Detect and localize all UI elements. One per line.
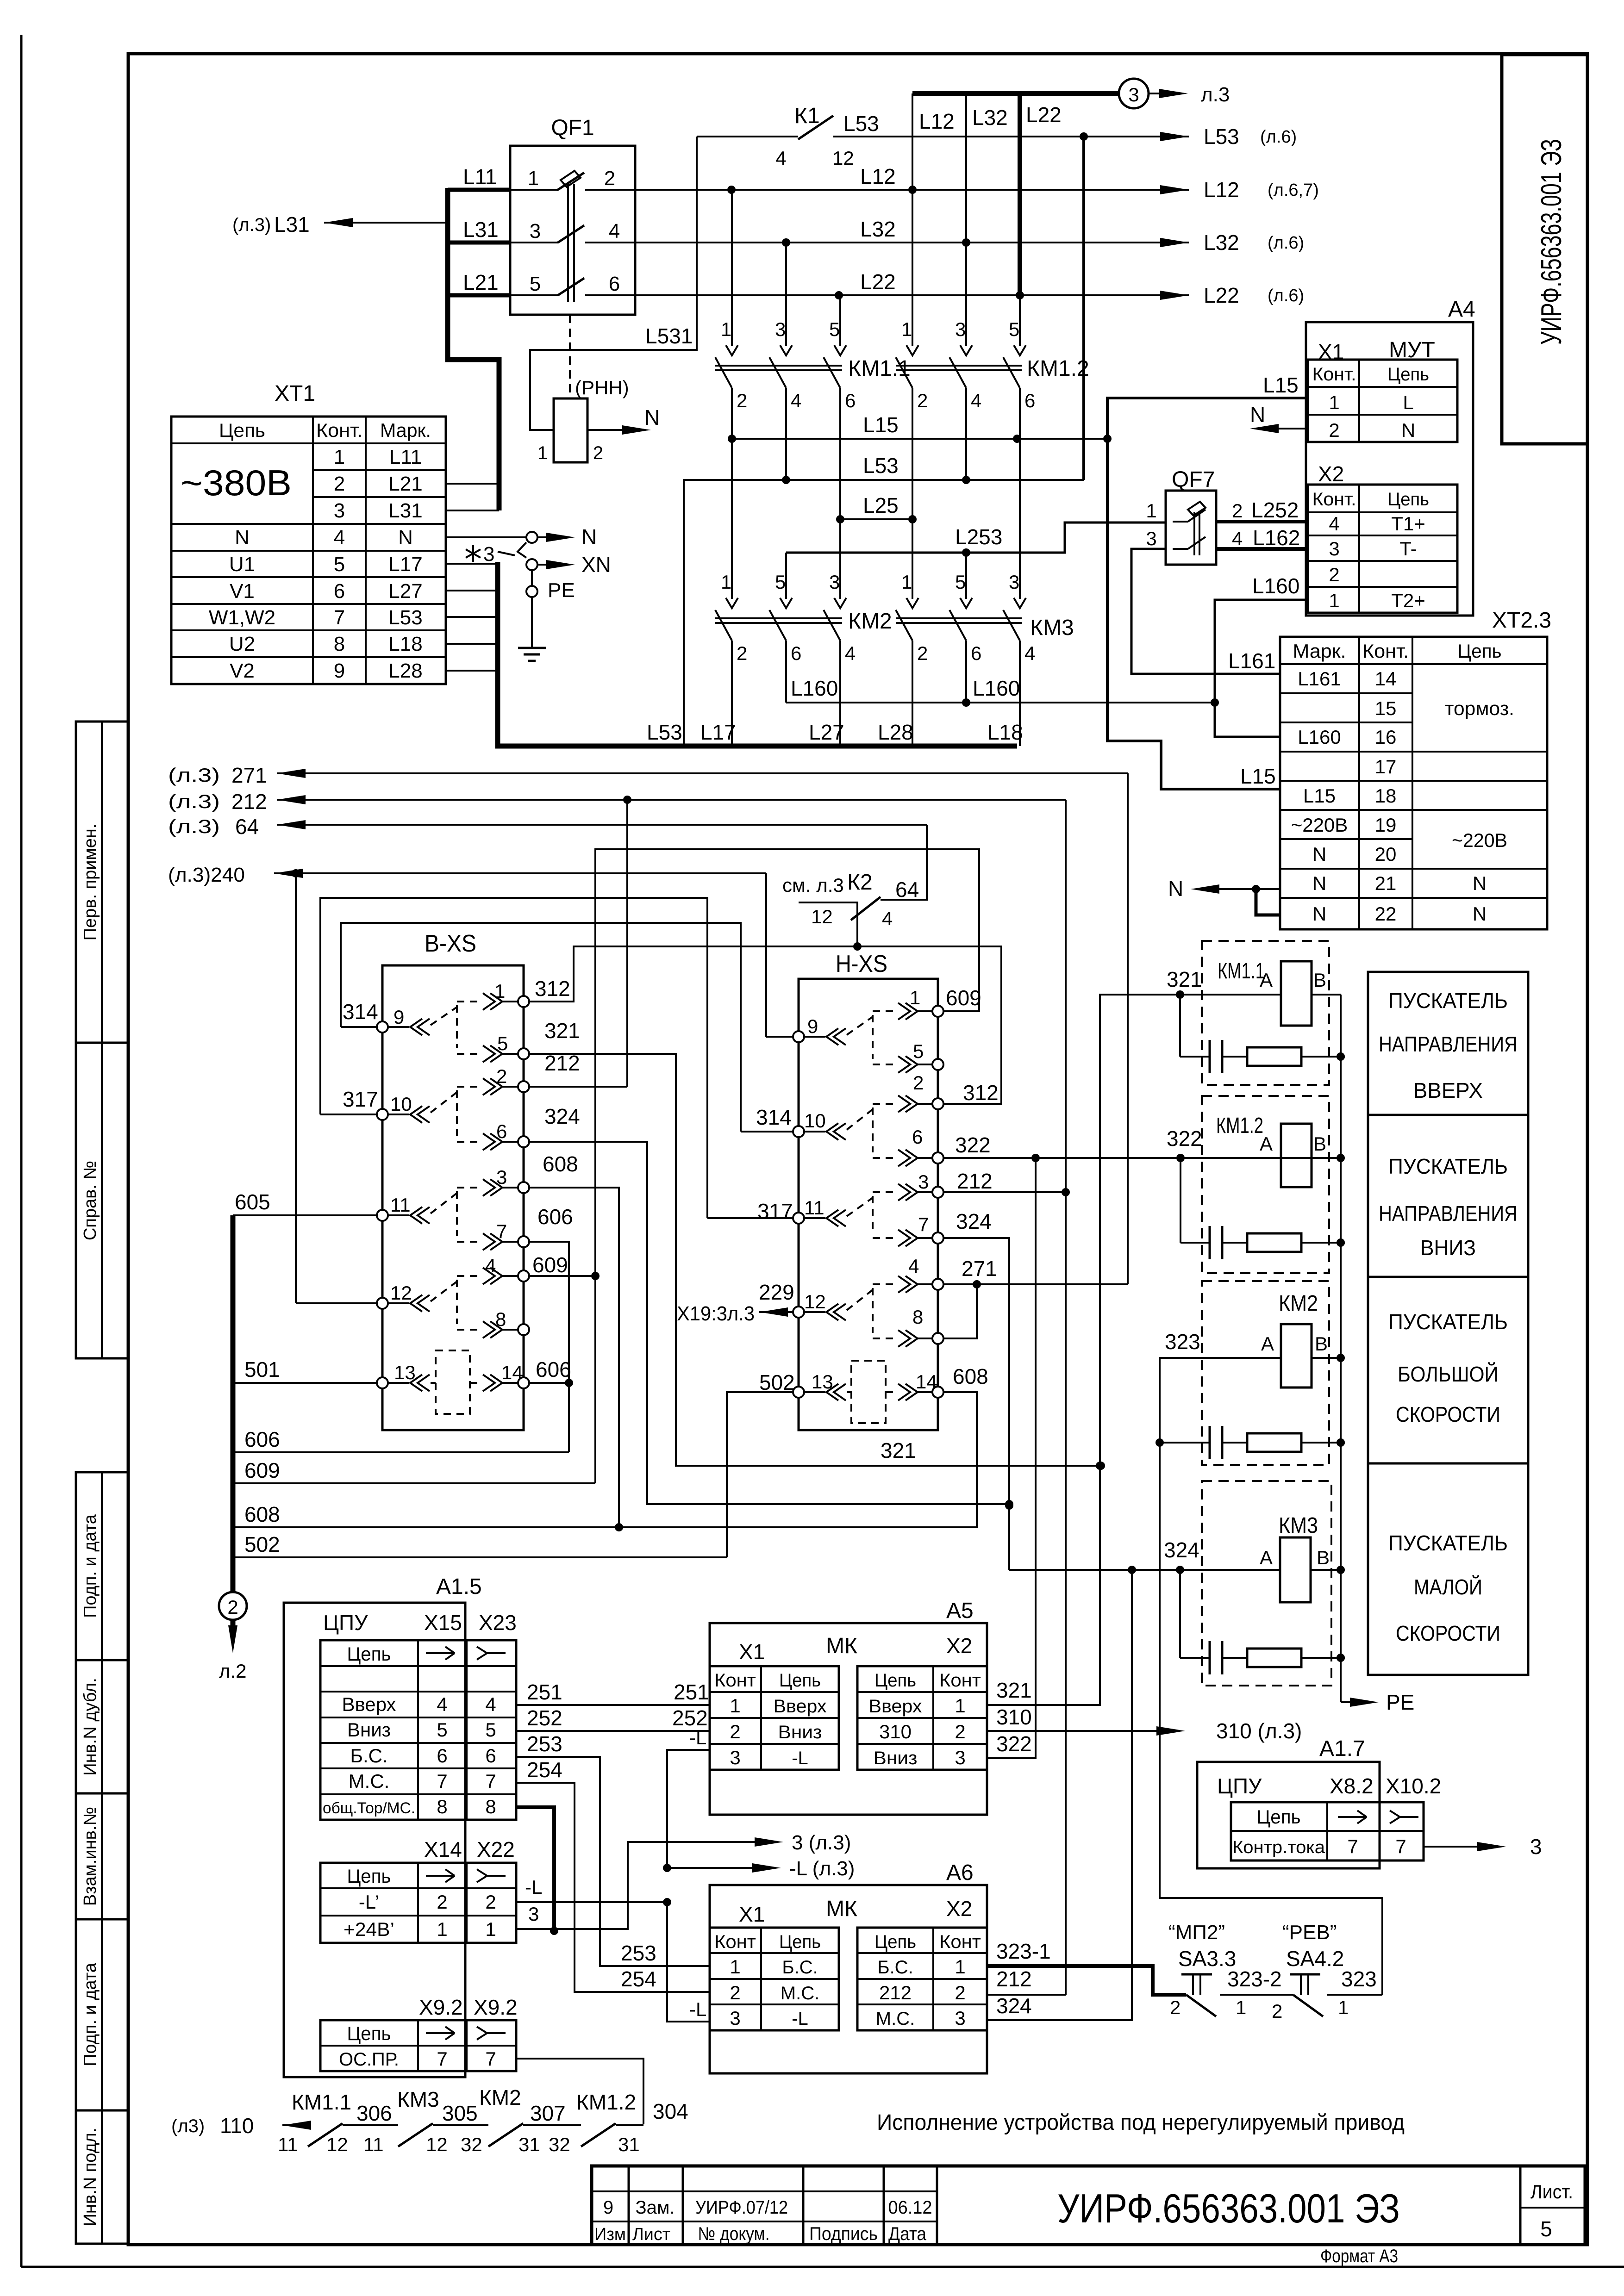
svg-text:ПУСКАТЕЛЬ: ПУСКАТЕЛЬ	[1388, 1310, 1508, 1334]
riser L17	[731, 641, 733, 746]
wire to QF7 pin3 / L161	[1131, 549, 1280, 674]
wire 609 stub pin4	[529, 1275, 595, 1277]
svg-text:X22: X22	[477, 1837, 515, 1861]
KM3 snubber	[1179, 1570, 1181, 1658]
svg-text:L15: L15	[1303, 785, 1336, 807]
svg-text:12: 12	[390, 1282, 412, 1304]
svg-text:606: 606	[536, 1357, 571, 1381]
svg-text:МАЛОЙ: МАЛОЙ	[1414, 1575, 1482, 1599]
svg-text:X9.2: X9.2	[419, 1995, 463, 2019]
svg-text:1: 1	[910, 987, 920, 1008]
svg-text:ВНИЗ: ВНИЗ	[1420, 1236, 1476, 1260]
svg-text:H-XS: H-XS	[836, 951, 887, 977]
svg-text:М.С.: М.С.	[781, 1983, 819, 2004]
wire 254	[516, 1783, 710, 1992]
svg-text:Изм: Изм	[594, 2225, 626, 2244]
B-XS pin 12	[377, 1298, 388, 1309]
svg-text:L27: L27	[809, 720, 844, 744]
svg-text:6: 6	[437, 1745, 447, 1767]
svg-text:Цепь: Цепь	[347, 1643, 391, 1665]
svg-text:11: 11	[804, 1197, 824, 1219]
svg-text:(л.3): (л.3)	[168, 764, 220, 786]
svg-text:L17: L17	[388, 553, 422, 576]
svg-text:L28: L28	[388, 660, 422, 682]
svg-text:64: 64	[895, 877, 919, 902]
svg-text:12: 12	[832, 147, 854, 169]
device A4 МУТ	[1306, 322, 1473, 616]
svg-text:A: A	[1260, 1133, 1273, 1155]
svg-text:L31: L31	[463, 218, 499, 242]
svg-text:(л.6): (л.6)	[1268, 286, 1304, 305]
wire 304 from X9.2	[516, 2059, 643, 2124]
wire 323	[1160, 1358, 1382, 1995]
svg-text:XT2.3: XT2.3	[1492, 608, 1551, 633]
H-XS pin 2	[932, 1098, 943, 1109]
H-XS pin 6	[932, 1152, 943, 1164]
KM1.2 snubber	[1180, 1158, 1181, 1243]
svg-text:609: 609	[244, 1458, 280, 1482]
wire 323-2	[1220, 1994, 1293, 1996]
contactor КМ1.2 linkage	[896, 365, 1022, 367]
svg-text:U1: U1	[229, 553, 255, 576]
svg-text:Взам.инв.№: Взам.инв.№	[81, 1807, 100, 1906]
H-XS pin 3	[932, 1187, 943, 1198]
svg-text:11: 11	[278, 2134, 298, 2155]
svg-text:A6: A6	[946, 1860, 974, 1885]
wire 317 stub	[320, 1114, 377, 1115]
wire -L net	[516, 1901, 667, 1903]
svg-text:609: 609	[532, 1253, 568, 1277]
wire L15 to XT2.3	[1107, 439, 1280, 789]
svg-text:32: 32	[549, 2134, 570, 2155]
label box ПУСКАТЕЛЬ НАПРАВЛЕНИЯ ВНИЗ	[1368, 1115, 1528, 1277]
svg-text:2: 2	[1232, 500, 1243, 522]
svg-text:4: 4	[882, 908, 893, 929]
wire 608 from pin3	[529, 1188, 619, 1527]
svg-text:N: N	[1250, 403, 1265, 427]
svg-text:3: 3	[955, 2007, 965, 2029]
left margin box Инв.N дубл.	[76, 1660, 128, 1793]
svg-text:251: 251	[674, 1680, 709, 1704]
aux contact KM3 11-12	[398, 2123, 433, 2147]
svg-text:9: 9	[334, 660, 345, 682]
svg-text:305: 305	[442, 2101, 478, 2125]
svg-text:4: 4	[845, 642, 856, 664]
wire 608 from h14	[943, 1392, 977, 1528]
svg-text:31: 31	[618, 2134, 640, 2155]
svg-text:5: 5	[913, 1040, 924, 1062]
svg-text:321: 321	[1167, 967, 1202, 991]
svg-text:310: 310	[996, 1705, 1032, 1729]
svg-text:L31: L31	[274, 212, 310, 236]
svg-text:-L: -L	[792, 2009, 808, 2029]
A1.5 table X14/X22	[320, 1863, 516, 1943]
svg-text:12: 12	[804, 1291, 826, 1313]
svg-text:310 (л.3): 310 (л.3)	[1216, 1719, 1302, 1743]
svg-text:321: 321	[996, 1678, 1032, 1702]
svg-text:Конт: Конт	[714, 1932, 756, 1952]
svg-text:(л.3): (л.3)	[232, 215, 271, 235]
svg-text:3: 3	[918, 1171, 929, 1193]
svg-text:6: 6	[609, 273, 620, 295]
svg-text:N: N	[1401, 419, 1415, 441]
XT1 neutral N branch circles	[446, 536, 526, 538]
svg-text:A5: A5	[946, 1599, 974, 1623]
svg-text:322: 322	[955, 1133, 991, 1157]
label box ПУСКАТЕЛЬ БОЛЬШОЙ СКОРОСТИ	[1368, 1277, 1528, 1463]
harness bundle to sheet 2	[231, 1215, 236, 1592]
wire 501	[233, 1382, 377, 1384]
svg-text:2: 2	[913, 1072, 924, 1094]
svg-text:ПУСКАТЕЛЬ: ПУСКАТЕЛЬ	[1388, 1531, 1508, 1555]
svg-text:L53: L53	[647, 720, 682, 744]
svg-text:2: 2	[955, 1721, 965, 1742]
svg-text:КМ1.2: КМ1.2	[576, 2090, 636, 2114]
A1.5 table X15/X23	[320, 1640, 516, 1820]
svg-text:УИРФ.07/12: УИРФ.07/12	[695, 2197, 788, 2218]
svg-text:Цепь: Цепь	[347, 1865, 391, 1887]
svg-text:л.2: л.2	[219, 1660, 247, 1682]
A5 X1 table	[710, 1666, 839, 1770]
wire L32 row	[635, 242, 1189, 243]
svg-text:Подп. и дата: Подп. и дата	[81, 1514, 100, 1618]
svg-text:1: 1	[955, 1695, 965, 1717]
svg-text:Вверх: Вверх	[774, 1696, 827, 1717]
svg-text:4: 4	[437, 1693, 447, 1715]
svg-text:X15: X15	[424, 1611, 462, 1635]
aux contact KM1.2 32-31	[581, 2123, 616, 2147]
svg-text:1: 1	[1329, 590, 1339, 611]
H-XS pin 12	[793, 1307, 804, 1318]
svg-text:X9.2: X9.2	[474, 1995, 518, 2019]
svg-text:X19:3л.3: X19:3л.3	[677, 1302, 755, 1325]
svg-text:XN: XN	[581, 553, 611, 577]
svg-text:A1.7: A1.7	[1319, 1736, 1365, 1761]
svg-text:L31: L31	[388, 499, 422, 522]
svg-text:(РНН): (РНН)	[575, 377, 629, 398]
svg-text:N: N	[644, 405, 660, 429]
left margin box Подп. и дата	[76, 1919, 128, 2110]
svg-text:L15: L15	[1240, 764, 1276, 788]
B-XS pin 5	[518, 1048, 529, 1059]
svg-text:3: 3	[1146, 528, 1156, 549]
svg-text:“МП2”: “МП2”	[1168, 1921, 1225, 1944]
H-XS pin 8	[932, 1333, 943, 1344]
svg-text:9: 9	[603, 2197, 613, 2218]
asterisk 3 note	[466, 545, 481, 562]
wire L253	[786, 523, 1166, 553]
wire 321	[1100, 995, 1281, 1706]
svg-text:Вниз: Вниз	[778, 1722, 822, 1742]
svg-text:л.3: л.3	[1201, 83, 1230, 106]
svg-text:12: 12	[811, 906, 833, 927]
svg-text:N: N	[1168, 877, 1183, 901]
B-XS pin 11	[377, 1210, 388, 1221]
H-XS wiper 10->2/6	[826, 1123, 846, 1140]
svg-text:V1: V1	[230, 580, 255, 603]
svg-text:1: 1	[1236, 1997, 1246, 2018]
riser L32	[965, 93, 967, 243]
svg-text:L22: L22	[860, 270, 896, 294]
svg-text:314: 314	[343, 1000, 378, 1024]
svg-text:5: 5	[1009, 318, 1019, 340]
svg-text:X10.2: X10.2	[1386, 1774, 1441, 1798]
svg-text:T2+: T2+	[1391, 590, 1425, 611]
H-XS pin 7	[932, 1232, 943, 1244]
svg-text:608: 608	[543, 1152, 578, 1176]
svg-text:5: 5	[829, 318, 840, 340]
svg-text:323: 323	[1165, 1330, 1200, 1354]
svg-text:3: 3	[1329, 538, 1339, 560]
svg-text:B: B	[1313, 1133, 1326, 1155]
svg-text:Контр.тока: Контр.тока	[1232, 1838, 1325, 1857]
svg-text:253: 253	[621, 1941, 656, 1965]
svg-text:Б.С.: Б.С.	[877, 1957, 913, 1978]
svg-text:2: 2	[737, 390, 747, 411]
arrow 310 (л.3)	[987, 1730, 1156, 1732]
svg-text:М.С.: М.С.	[349, 1770, 390, 1792]
wire 324 from pin6	[529, 1142, 1009, 1504]
svg-text:КМ2: КМ2	[1279, 1291, 1318, 1316]
svg-text:4: 4	[1232, 528, 1243, 549]
svg-text:606: 606	[244, 1427, 280, 1451]
wire 240 drop to H-XS pin9	[765, 873, 767, 1037]
svg-text:L27: L27	[388, 580, 422, 603]
svg-text:12: 12	[326, 2134, 348, 2155]
wire L22 row	[635, 294, 1189, 296]
svg-text:605: 605	[235, 1190, 270, 1214]
svg-text:2: 2	[737, 642, 747, 664]
undervoltage release (РНН)	[554, 398, 587, 462]
svg-text:251: 251	[527, 1680, 562, 1704]
svg-text:L25: L25	[863, 493, 899, 517]
left margin box Инв.N подл.	[76, 2110, 128, 2244]
svg-text:N: N	[1473, 872, 1487, 894]
svg-text:Вниз: Вниз	[874, 1748, 918, 1768]
KM2 snubber	[1160, 1442, 1210, 1444]
svg-text:L28: L28	[878, 720, 913, 744]
wire L31	[448, 241, 510, 245]
wire 251	[516, 1704, 710, 1706]
svg-text:КМ2: КМ2	[848, 609, 892, 634]
svg-text:A: A	[1260, 969, 1273, 991]
svg-text:Цепь: Цепь	[1387, 489, 1429, 510]
svg-text:322: 322	[1167, 1126, 1202, 1151]
wire 321 from pin5	[529, 1054, 1101, 1466]
svg-text:B: B	[1317, 1547, 1330, 1568]
svg-text:L32: L32	[972, 106, 1008, 130]
H-XS pin 10	[793, 1126, 804, 1137]
svg-text:Вверх: Вверх	[342, 1693, 396, 1715]
svg-text:10: 10	[390, 1093, 412, 1115]
svg-text:8: 8	[437, 1796, 447, 1817]
wire 502 channel	[234, 1556, 727, 1558]
svg-text:A: A	[1260, 1547, 1273, 1568]
svg-text:ПУСКАТЕЛЬ: ПУСКАТЕЛЬ	[1388, 1154, 1508, 1178]
svg-text:(л.6): (л.6)	[1260, 127, 1297, 147]
svg-text:ОС.ПР.: ОС.ПР.	[339, 2049, 399, 2070]
svg-text:321: 321	[881, 1438, 916, 1462]
wire 3 net	[516, 1842, 755, 1929]
wire L53 top row	[833, 136, 1189, 137]
svg-text:14: 14	[916, 1371, 937, 1393]
wire 314 stub h10	[741, 1131, 793, 1132]
svg-text:212: 212	[996, 1967, 1032, 1991]
svg-text:Марк.: Марк.	[380, 419, 431, 441]
-L down to A6	[667, 1902, 710, 2022]
page outer border	[20, 35, 23, 2267]
svg-text:314: 314	[756, 1105, 792, 1129]
A1.5 table X9.2	[320, 2020, 516, 2071]
wire 253	[516, 1757, 710, 1966]
riser L27	[839, 641, 841, 746]
svg-text:5: 5	[334, 553, 345, 576]
svg-text:502: 502	[244, 1532, 280, 1556]
svg-text:608: 608	[244, 1502, 280, 1526]
label box ПУСКАТЕЛЬ МАЛОЙ СКОРОСТИ	[1368, 1463, 1528, 1675]
svg-text:КМ3: КМ3	[1030, 616, 1074, 640]
svg-text:L53: L53	[1204, 124, 1239, 149]
wire 317 stub h11	[707, 1217, 793, 1219]
svg-text:9: 9	[394, 1006, 404, 1028]
left margin box Перв. примен.	[76, 722, 128, 1043]
svg-text:2: 2	[1329, 564, 1339, 585]
svg-text:L160: L160	[1298, 726, 1341, 748]
svg-text:11: 11	[390, 1194, 411, 1216]
contactor КМ1.2 pole 3-4	[960, 345, 972, 355]
contactor KM1.1 contacts	[731, 190, 733, 346]
svg-text:V2: V2	[230, 660, 255, 682]
svg-text:5: 5	[775, 571, 786, 593]
N arrow from A4	[1278, 428, 1308, 429]
svg-text:1: 1	[334, 446, 345, 468]
wire 317 cross link	[320, 898, 707, 1218]
wire 212 from A6	[987, 1994, 1066, 1996]
wire -L to A5	[667, 1750, 710, 1868]
wire 608 channel	[234, 1526, 977, 1528]
svg-text:2: 2	[1272, 2000, 1282, 2022]
svg-text:64: 64	[235, 815, 259, 839]
svg-text:УИРФ.656363.001 ЭЗ: УИРФ.656363.001 ЭЗ	[1057, 2185, 1400, 2231]
svg-text:609: 609	[946, 986, 981, 1010]
svg-text:4: 4	[908, 1255, 919, 1277]
svg-text:Формат А3: Формат А3	[1320, 2246, 1398, 2266]
wire L531	[530, 137, 697, 430]
B-XS wiper 12->4/8	[410, 1295, 430, 1312]
svg-text:(л.3): (л.3)	[168, 815, 220, 837]
svg-text:ВВЕРХ: ВВЕРХ	[1413, 1078, 1483, 1102]
svg-text:32: 32	[461, 2134, 482, 2155]
svg-text:19: 19	[1375, 814, 1397, 836]
circuit breaker QF1	[510, 146, 635, 315]
svg-text:НАПРАВЛЕНИЯ: НАПРАВЛЕНИЯ	[1379, 1032, 1518, 1056]
svg-text:14: 14	[501, 1362, 523, 1383]
svg-text:-L: -L	[792, 1748, 808, 1768]
svg-text:L18: L18	[987, 720, 1023, 744]
svg-text:тормоз.: тормоз.	[1445, 697, 1514, 719]
svg-text:Подпись: Подпись	[809, 2224, 878, 2244]
wire 271 from h4	[943, 1283, 1128, 1285]
contactor КМ1.1 pole 3-4	[780, 345, 792, 355]
svg-text:3: 3	[1009, 571, 1019, 593]
wire L11	[448, 188, 510, 192]
contactor КМ1.2 pole 1-2	[906, 345, 918, 355]
svg-text:1: 1	[730, 1695, 740, 1717]
svg-text:Перв. примен.: Перв. примен.	[81, 824, 100, 941]
svg-text:N: N	[1312, 843, 1326, 865]
wire 324 from h7	[943, 1238, 1009, 1570]
svg-text:14: 14	[1375, 668, 1397, 690]
svg-text:1: 1	[955, 1956, 965, 1978]
riser L18	[1019, 641, 1021, 746]
svg-text:-L (л.3): -L (л.3)	[789, 1857, 855, 1880]
wire 609 (B-XS pin4 / H-XS pin1)	[595, 849, 979, 1483]
svg-text:7: 7	[437, 1770, 447, 1792]
contactor KM2 contacts	[731, 439, 733, 599]
svg-text:N: N	[1312, 903, 1326, 925]
stub XT1 row L21	[446, 483, 499, 485]
svg-text:Цепь: Цепь	[219, 419, 265, 441]
wire L12 row	[635, 189, 1189, 191]
svg-text:~220В: ~220В	[1452, 829, 1507, 851]
contactor KM3 contacts	[912, 519, 913, 599]
svg-text:11: 11	[363, 2134, 384, 2155]
svg-text:Цепь: Цепь	[874, 1932, 916, 1952]
thick motor cable bus	[498, 562, 1017, 746]
wire 240 drop to B-XS pin12	[295, 873, 297, 1303]
svg-text:3 (л.3): 3 (л.3)	[792, 1831, 851, 1854]
svg-text:КМ2: КМ2	[479, 2085, 521, 2109]
H-XS wiper 13->14	[804, 1391, 825, 1393]
svg-text:17: 17	[1375, 756, 1397, 778]
svg-text:1: 1	[901, 318, 912, 340]
wire 312 (B-XS pin1 to H-XS pin2)	[524, 946, 1001, 1104]
svg-text:L17: L17	[700, 720, 736, 744]
B-XS wiper 10->2/6	[410, 1106, 430, 1123]
svg-text:1: 1	[537, 443, 548, 463]
svg-text:5: 5	[1540, 2217, 1552, 2241]
wire 322	[943, 1157, 1341, 1159]
wire 271 to sheet3	[277, 772, 1128, 774]
svg-text:Конт.: Конт.	[1312, 489, 1356, 510]
svg-text:3: 3	[1128, 84, 1139, 106]
svg-text:-L: -L	[689, 1998, 706, 2020]
svg-text:SA4.2: SA4.2	[1286, 1947, 1344, 1971]
svg-text:06.12: 06.12	[888, 2197, 932, 2218]
svg-text:L161: L161	[1298, 668, 1341, 690]
svg-text:X2: X2	[946, 1634, 972, 1658]
svg-text:7: 7	[918, 1213, 929, 1235]
wire 252	[516, 1730, 710, 1732]
B-XS wiper 9->1/5	[410, 1019, 430, 1035]
svg-text:Цепь: Цепь	[1387, 364, 1429, 385]
wire 240 to sheet3	[274, 872, 766, 874]
svg-text:324: 324	[956, 1209, 992, 1233]
contactor КМ3 pole 3-4	[1014, 598, 1026, 608]
KM1.1 snubber	[1179, 995, 1181, 1057]
stub XT1 row L31	[446, 510, 499, 511]
svg-text:Справ. №: Справ. №	[81, 1161, 100, 1240]
svg-text:Лист: Лист	[632, 2225, 670, 2244]
wire 323-1	[987, 1966, 1186, 1995]
stub XT1 row W1W2	[446, 616, 498, 618]
aux contact KM2 32-31	[488, 2123, 523, 2147]
svg-text:2: 2	[437, 1891, 447, 1913]
svg-text:PE: PE	[1386, 1690, 1414, 1714]
arrow 3 from A1.7	[1424, 1846, 1477, 1848]
wire 314 stub	[341, 1026, 377, 1028]
wire 212 to sheet3	[277, 799, 1066, 801]
